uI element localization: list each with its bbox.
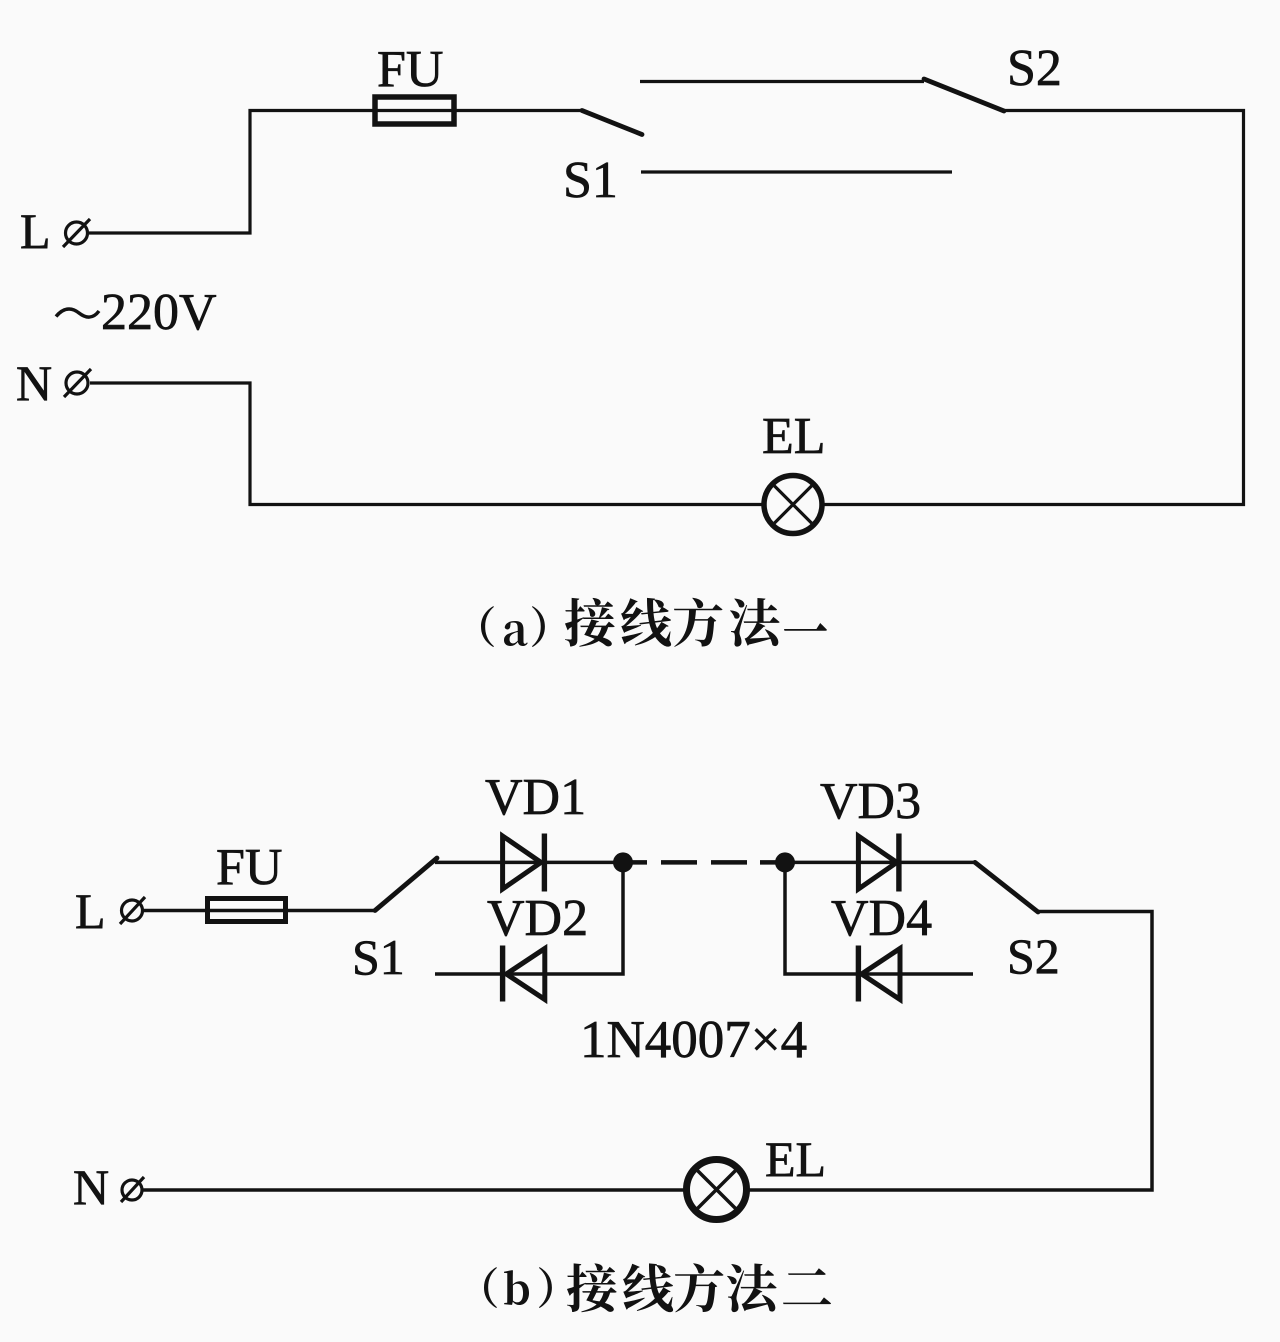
- diode VD4 triangle: [862, 949, 900, 1000]
- svg-text:EL: EL: [762, 408, 826, 465]
- svg-text:VD2: VD2: [487, 890, 588, 947]
- wire dashed link between nodes (circuit b): [623, 860, 785, 865]
- svg-text:1N4007×4: 1N4007×4: [580, 1011, 807, 1069]
- wire L to S1 (circuit b): [143, 909, 375, 913]
- svg-text:S2: S2: [1007, 928, 1060, 984]
- switch S2 blade (circuit a): [924, 79, 1004, 111]
- switch S2 blade (circuit b): [975, 862, 1038, 912]
- svg-text:FU: FU: [216, 839, 282, 896]
- diode VD3 triangle: [858, 836, 896, 889]
- node junction right (circuit b): [775, 852, 795, 872]
- fuse FU (circuit a): [375, 97, 454, 124]
- node N (circuit b) terminal: [121, 1177, 144, 1202]
- wire S2 pole to lamp loop and N terminal (circuit a): [90, 111, 1244, 505]
- svg-text:S1: S1: [352, 929, 405, 985]
- wire L to fuse (circuit a): [89, 111, 582, 234]
- svg-text:FU: FU: [377, 41, 443, 98]
- node L (circuit a) terminal: [63, 219, 90, 247]
- svg-text:VD4: VD4: [831, 890, 932, 947]
- diode VD1 triangle: [503, 836, 541, 889]
- svg-text:VD3: VD3: [820, 773, 921, 830]
- wire S2 down to N line (circuit b): [143, 912, 1152, 1191]
- wire top traveler S1-S2 (circuit a): [640, 80, 924, 83]
- wire VD4 branch lower row (circuit b): [785, 862, 973, 974]
- svg-text:L: L: [20, 203, 51, 259]
- node junction left (circuit b): [613, 852, 633, 872]
- wire top row through VD1 to node (circuit b): [435, 861, 623, 865]
- svg-text:220V: 220V: [101, 284, 217, 341]
- svg-text:EL: EL: [765, 1131, 826, 1187]
- fuse FU (circuit b): [208, 899, 286, 922]
- node L (circuit b) terminal: [120, 897, 145, 924]
- lamp EL (circuit a): [764, 476, 822, 534]
- svg-text:VD1: VD1: [485, 769, 586, 826]
- diode VD3 cathode bar: [896, 834, 901, 892]
- wire top row node to S2 through VD3 (circuit b): [785, 861, 975, 865]
- wire bottom traveler S1-S2 (circuit a): [641, 170, 952, 173]
- diode VD4 cathode bar: [856, 946, 861, 1002]
- svg-text:S2: S2: [1007, 40, 1062, 97]
- svg-text:N: N: [73, 1159, 109, 1215]
- diode VD2 cathode bar: [500, 946, 505, 1002]
- wire VD2 branch lower row (circuit b): [435, 862, 623, 974]
- switch S1 blade (circuit a): [582, 111, 642, 135]
- diode VD2 triangle: [506, 949, 544, 1000]
- lamp EL (circuit b): [687, 1160, 747, 1220]
- switch S1 blade (circuit b): [375, 858, 437, 911]
- svg-text:L: L: [75, 883, 106, 939]
- node N (circuit a) terminal: [64, 369, 91, 397]
- caption (a) jie xian fang fa yi: [481, 598, 827, 647]
- svg-text:N: N: [16, 355, 52, 411]
- caption (b) jie xian fang fa er: [484, 1263, 831, 1312]
- diode VD1 cathode bar: [542, 834, 547, 892]
- svg-text:S1: S1: [563, 152, 618, 209]
- label ~220V tilde: [56, 309, 99, 317]
